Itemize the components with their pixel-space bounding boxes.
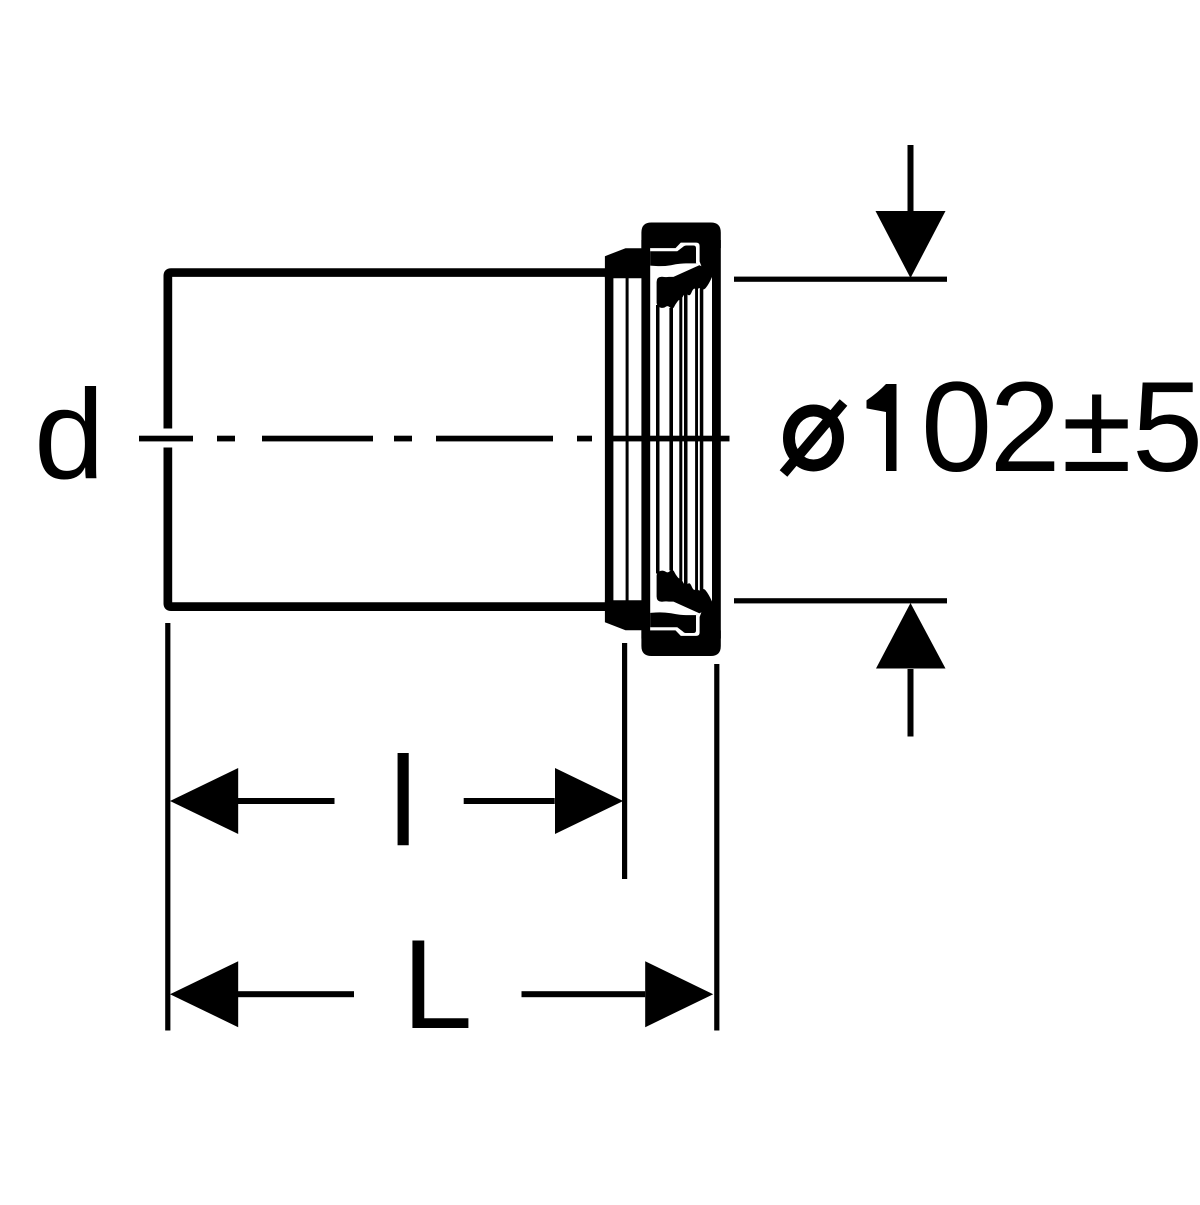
arrow diameter bottom	[876, 603, 946, 737]
svg-text:L: L	[402, 913, 473, 1055]
svg-text:0: 0	[921, 356, 992, 499]
svg-text:d: d	[34, 363, 105, 505]
seal gasket assembly mirrored bottom half	[641, 438, 720, 656]
dimension l	[170, 768, 623, 834]
dimension L	[170, 961, 713, 1027]
seal ribs	[656, 287, 703, 592]
seal gasket assembly	[641, 223, 720, 441]
flange left bar	[605, 270, 614, 608]
seal outer cap	[641, 223, 720, 249]
seal left bar	[641, 240, 650, 441]
svg-text:l: l	[389, 730, 417, 872]
wire diameter extension line bottom	[734, 598, 947, 603]
flange hat top	[605, 248, 643, 278]
wire pipe outline lower left	[168, 448, 610, 607]
flange hat bottom	[605, 600, 643, 630]
seal right wall	[712, 240, 721, 441]
node centerline dash-dot axis	[139, 436, 592, 442]
wire diameter extension line top	[734, 277, 947, 282]
flange rib line	[626, 278, 629, 601]
svg-text:±: ±	[1062, 356, 1132, 499]
label digit 1	[867, 384, 897, 471]
label diameter symbol	[784, 403, 844, 474]
wire extension line right	[714, 664, 719, 1031]
svg-text:5: 5	[1132, 356, 1200, 499]
wire extension line left	[165, 623, 170, 1031]
arrow diameter top	[876, 145, 946, 278]
wire pipe outline upper left	[168, 273, 610, 429]
seal white slot channel	[650, 243, 701, 267]
wire extension line middle	[622, 643, 627, 879]
seal rubber mass	[650, 247, 712, 309]
centerline bar across seal	[613, 436, 730, 442]
svg-text:2: 2	[990, 356, 1061, 499]
